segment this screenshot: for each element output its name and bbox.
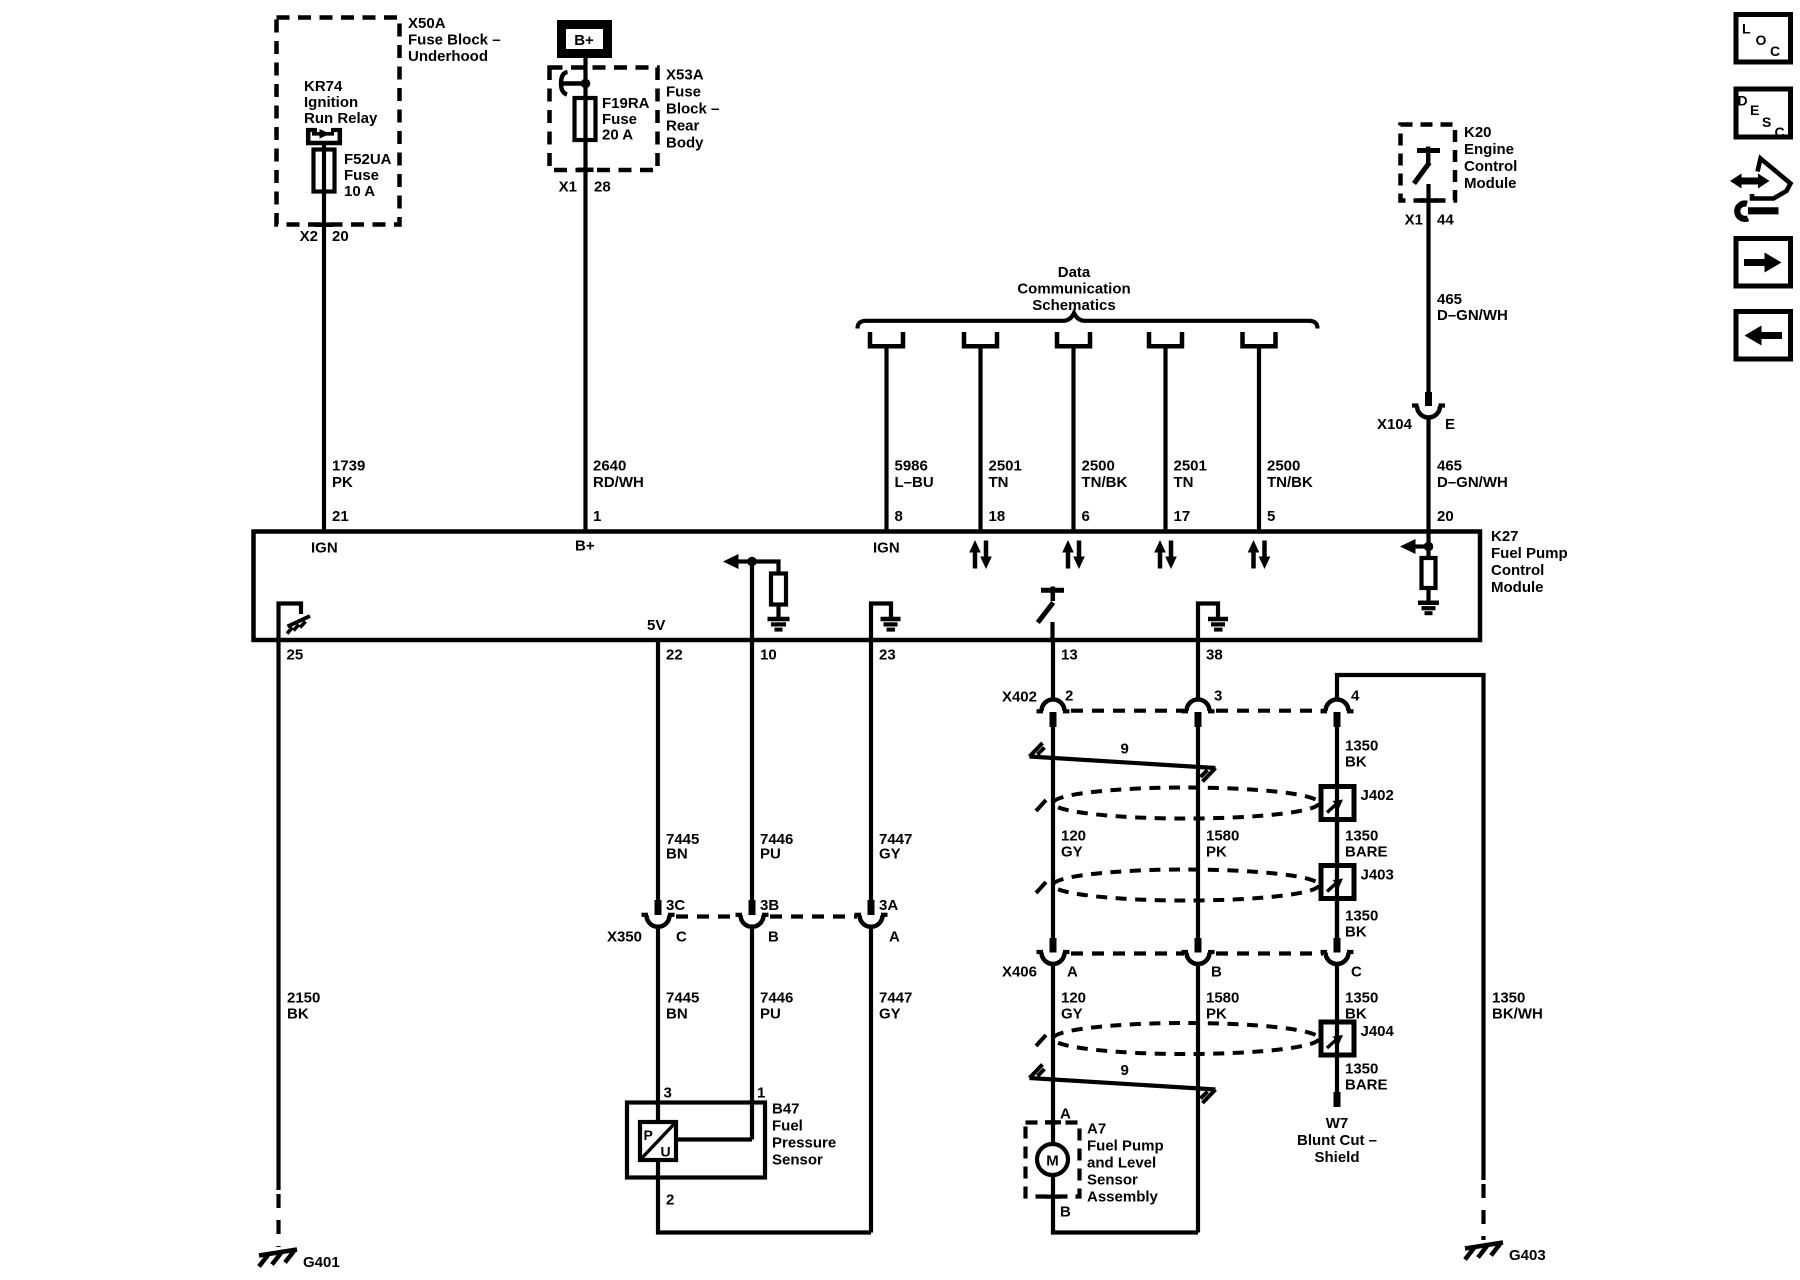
svg-text:X350: X350 <box>607 929 642 946</box>
svg-text:L: L <box>1742 21 1751 37</box>
svg-text:K20: K20 <box>1464 124 1492 141</box>
svg-text:22: 22 <box>666 647 683 664</box>
label K20 Engine Control Module <box>1464 124 1517 192</box>
wire 2501 TN (pin 18) <box>978 349 982 532</box>
shield drain loop 3 <box>1036 1023 1319 1054</box>
svg-text:D–GN/WH: D–GN/WH <box>1437 474 1508 491</box>
label relay KR74 <box>304 78 378 127</box>
wire 120 GY top (pin 13 to X402 2) <box>1051 642 1055 699</box>
svg-text:1: 1 <box>757 1085 765 1102</box>
wire 2150 BK (pin 25 to G401) <box>276 642 280 1190</box>
svg-text:D–GN/WH: D–GN/WH <box>1437 307 1508 324</box>
svg-text:X1: X1 <box>1405 212 1423 229</box>
svg-text:7445: 7445 <box>666 990 699 1007</box>
svg-text:120: 120 <box>1061 990 1086 1007</box>
wire pump return (B to 1580 PK) <box>1053 1175 1198 1233</box>
svg-text:M: M <box>1046 1153 1059 1170</box>
svg-text:and Level: and Level <box>1087 1155 1156 1172</box>
wire 7445 BN lower (X350 C to sensor pin 3) <box>656 929 660 1123</box>
svg-text:TN/BK: TN/BK <box>1267 474 1313 491</box>
label wire 2150 BK <box>287 990 320 1023</box>
connector X402 terminal 2 <box>1037 700 1070 728</box>
label connector X1 pin 28 <box>559 179 611 196</box>
svg-text:28: 28 <box>594 179 611 196</box>
ground G403 <box>1465 1243 1546 1265</box>
svg-text:BARE: BARE <box>1345 844 1388 861</box>
svg-text:Sensor: Sensor <box>1087 1172 1138 1189</box>
svg-text:Engine: Engine <box>1464 141 1514 158</box>
pump A7 dashed box <box>1026 1123 1080 1197</box>
svg-text:Data: Data <box>1058 264 1091 281</box>
svg-text:B: B <box>1211 964 1222 981</box>
connector X104 terminal E <box>1377 392 1455 433</box>
svg-text:J403: J403 <box>1361 867 1394 884</box>
svg-text:4: 4 <box>1351 688 1360 705</box>
internal chassis ground pin 25 <box>279 604 311 641</box>
svg-text:1350: 1350 <box>1345 828 1378 845</box>
label wire 465 D-GN/WH upper <box>1437 291 1508 324</box>
internal resistor to ground pin 20 <box>1400 533 1439 613</box>
K20 internal switch <box>1414 147 1440 184</box>
label wire 2640 RD/WH <box>593 458 644 492</box>
module K27 Fuel Pump Control Module box <box>254 532 1481 641</box>
svg-text:BN: BN <box>666 846 688 863</box>
pump A7 boundary crossing ticks <box>1045 1122 1061 1196</box>
svg-text:B47: B47 <box>772 1101 800 1118</box>
svg-text:B: B <box>1060 1204 1071 1221</box>
svg-text:D: D <box>1738 93 1748 109</box>
svg-text:9: 9 <box>1121 741 1129 758</box>
svg-text:Fuel Pump: Fuel Pump <box>1087 1138 1164 1155</box>
svg-text:BK: BK <box>287 1006 309 1023</box>
wire 2501 TN (pin 17) <box>1163 349 1167 532</box>
svg-text:PK: PK <box>1206 1006 1227 1023</box>
svg-text:1739: 1739 <box>332 458 365 475</box>
svg-text:1350: 1350 <box>1345 1061 1378 1078</box>
svg-text:1350: 1350 <box>1345 738 1378 755</box>
connector X350 terminal B <box>736 900 769 927</box>
svg-text:1580: 1580 <box>1206 990 1239 1007</box>
svg-text:2: 2 <box>1065 688 1073 705</box>
svg-text:Sensor: Sensor <box>772 1152 823 1169</box>
label wire 7447 GY upper <box>879 831 912 863</box>
internal ground pin 23 <box>871 604 901 641</box>
circuit breaker hook symbol in X53A <box>561 72 590 95</box>
svg-text:RD/WH: RD/WH <box>593 474 644 491</box>
button DESC <box>1736 89 1791 140</box>
wire 120 GY lower (X406 A to pump) <box>1051 965 1055 1123</box>
svg-text:S: S <box>1762 114 1771 130</box>
wire 465 D-GN/WH upper (ECM to X104) <box>1426 184 1430 393</box>
label X50A Fuse Block - Underhood <box>408 15 501 65</box>
connector X402 terminal 3 <box>1182 700 1215 728</box>
svg-text:Communication: Communication <box>1017 281 1130 298</box>
svg-text:465: 465 <box>1437 458 1462 475</box>
svg-text:Module: Module <box>1491 579 1544 596</box>
svg-text:B: B <box>768 929 779 946</box>
internal ground pin 38 <box>1198 604 1228 641</box>
label connector X1 pin 44 <box>1405 212 1455 229</box>
svg-text:Module: Module <box>1464 175 1517 192</box>
svg-text:Pressure: Pressure <box>772 1135 836 1152</box>
svg-text:GY: GY <box>879 846 901 863</box>
label F19RA Fuse 20 A <box>602 95 650 144</box>
svg-text:Control: Control <box>1491 562 1544 579</box>
wire 465 D-GN/WH lower (X104 to module pin 20) <box>1426 419 1430 532</box>
splice J402 <box>1321 787 1354 820</box>
label wire 1350 BARE lower <box>1345 1061 1388 1094</box>
label wire 2501 TN (pin 18) <box>989 458 1022 492</box>
svg-text:20: 20 <box>332 228 349 245</box>
svg-text:PK: PK <box>332 474 353 491</box>
wire 7446 PU upper (pin 10 to X350 B) <box>750 642 754 901</box>
wire shield jumper to G403 (X402 4 up and over) <box>1337 675 1484 1240</box>
svg-text:5: 5 <box>1267 508 1275 525</box>
svg-text:20 A: 20 A <box>602 127 633 144</box>
label wire 1350 BK/WH <box>1492 990 1543 1023</box>
svg-text:1350: 1350 <box>1345 990 1378 1007</box>
ground G401 <box>259 1250 340 1272</box>
shield drain loop 2 <box>1036 870 1319 901</box>
label W7 Blunt Cut Shield <box>1297 1115 1377 1166</box>
wire 2640 RD/WH (B+ to module pin 1) <box>583 58 587 531</box>
svg-text:K27: K27 <box>1491 528 1519 545</box>
wire 1580 PK lower (X406 B to pump return) <box>1196 965 1200 1233</box>
svg-text:2500: 2500 <box>1267 458 1300 475</box>
data connector 2 <box>964 332 997 346</box>
svg-text:8: 8 <box>895 508 903 525</box>
svg-text:U: U <box>661 1144 671 1160</box>
svg-text:GY: GY <box>1061 844 1083 861</box>
svg-text:2500: 2500 <box>1082 458 1115 475</box>
label wire 2500 TN/BK (pin 5) <box>1267 458 1313 492</box>
wire 1350 BK (J403 to X406 C) <box>1335 899 1339 939</box>
fuse F19RA <box>575 98 596 140</box>
svg-text:Fuse Block –: Fuse Block – <box>408 32 501 49</box>
crossing tick at K20 box edge <box>1420 198 1437 203</box>
svg-text:X53A: X53A <box>666 67 704 84</box>
sensor B47 box <box>627 1103 765 1178</box>
label X53A Fuse Block - Rear Body <box>666 67 719 152</box>
svg-text:Underhood: Underhood <box>408 48 488 65</box>
svg-text:KR74: KR74 <box>304 78 343 95</box>
svg-text:1: 1 <box>593 508 601 525</box>
label F52UA Fuse 10 A <box>344 151 392 200</box>
svg-text:1350: 1350 <box>1345 908 1378 925</box>
label wire 465 D-GN/WH lower <box>1437 458 1508 492</box>
wire 1350 BARE (J402 to J403) <box>1335 820 1339 867</box>
svg-text:18: 18 <box>989 508 1006 525</box>
svg-text:5986: 5986 <box>895 458 928 475</box>
svg-text:1580: 1580 <box>1206 828 1239 845</box>
svg-text:A: A <box>1067 964 1078 981</box>
svg-text:3A: 3A <box>879 897 898 914</box>
svg-text:A: A <box>889 929 900 946</box>
connector X406 terminal B <box>1182 938 1215 964</box>
svg-text:7446: 7446 <box>760 990 793 1007</box>
svg-text:X50A: X50A <box>408 15 446 32</box>
svg-text:BN: BN <box>666 1006 688 1023</box>
wire 120 GY (X402 to X406) <box>1051 727 1055 938</box>
wire 5986 L-BU <box>884 349 888 532</box>
svg-text:10 A: 10 A <box>344 183 375 200</box>
wire 1580 PK (X402 to X406) <box>1196 727 1200 938</box>
wire 1350 BK lower (X406 C to splice J404) <box>1335 965 1339 1093</box>
connector X350 terminal C <box>642 900 675 927</box>
twisted pair symbol upper <box>1030 743 1216 782</box>
svg-text:25: 25 <box>287 647 304 664</box>
svg-text:TN/BK: TN/BK <box>1082 474 1128 491</box>
svg-text:Assembly: Assembly <box>1087 1189 1159 1206</box>
svg-text:GY: GY <box>879 1006 901 1023</box>
svg-text:Control: Control <box>1464 158 1517 175</box>
svg-text:B+: B+ <box>575 538 595 555</box>
splice J403 <box>1321 866 1354 899</box>
label wire 7446 PU lower <box>760 990 793 1023</box>
svg-text:X2: X2 <box>300 228 318 245</box>
svg-text:E: E <box>1750 102 1759 118</box>
svg-text:X104: X104 <box>1377 416 1413 433</box>
svg-text:G403: G403 <box>1509 1247 1546 1264</box>
svg-text:10: 10 <box>760 647 777 664</box>
svg-text:A7: A7 <box>1087 1121 1106 1138</box>
svg-text:120: 120 <box>1061 828 1086 845</box>
svg-text:X406: X406 <box>1002 964 1037 981</box>
bidirectional arrows pin 18 <box>969 540 992 569</box>
data connector 3 <box>1057 332 1090 346</box>
label B47 Fuel Pressure Sensor <box>772 1101 836 1169</box>
svg-text:Block –: Block – <box>666 101 719 118</box>
svg-text:BK/WH: BK/WH <box>1492 1006 1543 1023</box>
wire sensor low reference (pin 2 to 7447 GY) <box>658 1160 871 1233</box>
connector X350 terminal A <box>855 900 888 927</box>
svg-text:Shield: Shield <box>1314 1149 1359 1166</box>
wire 1350 BK (X402 to splice J402) <box>1335 727 1339 938</box>
wire 7445 BN upper (pin 22 to X350 C) <box>656 642 660 901</box>
connector X1 pin 28 crossing tick <box>578 168 594 173</box>
label K27 Fuel Pump Control Module <box>1491 528 1568 596</box>
data connector 4 <box>1149 332 1182 346</box>
bidirectional arrows pin 5 <box>1248 540 1271 569</box>
svg-text:TN: TN <box>989 474 1009 491</box>
svg-text:TN: TN <box>1174 474 1194 491</box>
svg-text:3: 3 <box>1214 688 1222 705</box>
svg-text:A: A <box>1060 1106 1071 1123</box>
twisted pair symbol lower <box>1030 1065 1216 1104</box>
svg-text:PK: PK <box>1206 844 1227 861</box>
svg-text:X1: X1 <box>559 179 577 196</box>
label wire 7446 PU upper <box>760 831 793 863</box>
fuel pump motor M <box>1037 1124 1068 1175</box>
svg-text:C: C <box>1770 43 1780 59</box>
svg-text:9: 9 <box>1121 1062 1129 1079</box>
svg-text:Fuse: Fuse <box>602 111 637 128</box>
pressure sensor element P/U <box>640 1122 676 1160</box>
battery feed B+ box <box>562 25 608 54</box>
splice J404 <box>1321 1022 1354 1055</box>
label wire 1739 PK <box>332 458 365 492</box>
svg-text:Fuel Pump: Fuel Pump <box>1491 545 1568 562</box>
fuse block X53A (dashed box) <box>550 68 658 171</box>
fuse F52UA <box>314 150 335 192</box>
label A7 Fuel Pump and Level Sensor Assembly <box>1087 1121 1164 1206</box>
label wire 7447 GY lower <box>879 990 912 1023</box>
svg-text:3: 3 <box>664 1085 672 1102</box>
svg-text:P: P <box>644 1127 653 1143</box>
svg-text:2: 2 <box>666 1192 674 1209</box>
svg-text:Rear: Rear <box>666 118 700 135</box>
fuse block X50A (dashed box) <box>277 18 400 225</box>
svg-text:2150: 2150 <box>287 990 320 1007</box>
svg-text:38: 38 <box>1206 647 1223 664</box>
svg-text:Body: Body <box>666 135 704 152</box>
svg-text:23: 23 <box>879 647 896 664</box>
svg-text:3B: 3B <box>760 897 779 914</box>
label wire 120 GY lower <box>1061 990 1086 1023</box>
svg-text:F52UA: F52UA <box>344 151 392 168</box>
svg-text:B+: B+ <box>574 32 594 49</box>
svg-text:W7: W7 <box>1326 1115 1349 1132</box>
button next arrow <box>1736 239 1791 287</box>
module K20 ECM (dashed box) <box>1401 125 1456 201</box>
wire 7447 GY upper (pin 23 to X350 A) <box>869 642 873 901</box>
wire 1580 PK top (pin 38 to X402 3) <box>1196 642 1200 699</box>
svg-text:2640: 2640 <box>593 458 626 475</box>
shield drain loop 1 <box>1036 788 1319 819</box>
connector X402 dashed gang line <box>1071 709 1323 713</box>
svg-text:5V: 5V <box>647 617 665 634</box>
svg-text:44: 44 <box>1437 212 1454 229</box>
button back arrow <box>1736 312 1791 360</box>
svg-text:J402: J402 <box>1361 787 1394 804</box>
svg-text:G401: G401 <box>303 1254 340 1271</box>
relay KR74 contact symbol <box>306 128 342 143</box>
wire 2500 TN/BK (pin 5) <box>1257 349 1261 532</box>
svg-text:6: 6 <box>1082 508 1090 525</box>
label wire 2500 TN/BK (pin 6) <box>1082 458 1128 492</box>
svg-text:21: 21 <box>332 508 349 525</box>
svg-text:C: C <box>676 929 687 946</box>
internal switch pin 13 <box>1038 587 1064 641</box>
bidirectional arrows pin 17 <box>1154 540 1177 569</box>
svg-text:465: 465 <box>1437 291 1462 308</box>
svg-text:X402: X402 <box>1002 689 1037 706</box>
svg-text:20: 20 <box>1437 508 1454 525</box>
data connector 1 <box>870 332 903 346</box>
svg-text:7447: 7447 <box>879 990 912 1007</box>
svg-text:IGN: IGN <box>311 540 338 557</box>
label wire 1350 BARE <box>1345 828 1388 861</box>
svg-text:2501: 2501 <box>1174 458 1207 475</box>
connector X2 pin 20 crossing tick <box>315 223 333 228</box>
data connector 5 <box>1243 332 1276 346</box>
icon vehicle data test (car outline with arrows and wrench) <box>1730 159 1791 219</box>
label wire 1350 BK (above J402) <box>1345 738 1378 771</box>
label wire 2501 TN (pin 17) <box>1174 458 1207 492</box>
svg-text:Blunt Cut –: Blunt Cut – <box>1297 1132 1377 1149</box>
bidirectional arrows pin 6 <box>1062 540 1085 569</box>
wire 7446 PU lower (X350 B to sensor pin 1) <box>750 929 754 1140</box>
svg-text:C: C <box>1351 964 1362 981</box>
wire 1739 PK (relay to module pin 21) <box>322 145 326 531</box>
svg-text:BK: BK <box>1345 924 1367 941</box>
svg-text:BARE: BARE <box>1345 1077 1388 1094</box>
connector X406 terminal A <box>1037 938 1070 964</box>
label wire 7445 BN upper <box>666 831 699 863</box>
wire 7447 GY lower (X350 A to sensor low reference) <box>869 929 873 1233</box>
svg-text:17: 17 <box>1174 508 1191 525</box>
label wire 1580 PK lower <box>1206 990 1239 1023</box>
label wire 1350 BK lower <box>1345 990 1378 1023</box>
svg-text:Fuel: Fuel <box>772 1118 803 1135</box>
label wire 5986 L-BU <box>895 458 934 492</box>
internal 5V pull-up resistor pin 10 <box>723 554 790 640</box>
svg-text:PU: PU <box>760 1006 781 1023</box>
svg-text:PU: PU <box>760 846 781 863</box>
connector X402 terminal 4 <box>1321 700 1354 728</box>
svg-text:IGN: IGN <box>873 540 900 557</box>
button LOC <box>1736 15 1791 63</box>
connector X350 dashed gang line <box>676 914 857 918</box>
wire 2500 TN/BK (pin 6) <box>1071 349 1075 532</box>
svg-text:BK: BK <box>1345 754 1367 771</box>
svg-text:3C: 3C <box>666 897 685 914</box>
blunt cut W7 shield <box>1334 1092 1341 1107</box>
brace over data connectors <box>858 313 1318 329</box>
svg-text:2501: 2501 <box>989 458 1022 475</box>
svg-text:GY: GY <box>1061 1006 1083 1023</box>
label wire 1580 PK <box>1206 828 1239 861</box>
wire sensor signal link (pin 1 to element) <box>676 1137 752 1141</box>
svg-text:1350: 1350 <box>1492 990 1525 1007</box>
connector X406 terminal C <box>1321 938 1354 964</box>
svg-text:Fuse: Fuse <box>344 167 379 184</box>
label wire 1350 BK (below J403) <box>1345 908 1378 941</box>
label connector X2 pin 20 <box>300 228 349 245</box>
connector X406 dashed gang line <box>1071 951 1323 955</box>
svg-text:13: 13 <box>1061 647 1078 664</box>
svg-text:L–BU: L–BU <box>895 474 934 491</box>
svg-text:C: C <box>1775 124 1785 140</box>
svg-text:Ignition: Ignition <box>304 94 358 111</box>
svg-text:J404: J404 <box>1361 1023 1395 1040</box>
svg-text:F19RA: F19RA <box>602 95 650 112</box>
svg-text:Fuse: Fuse <box>666 84 701 101</box>
label wire 7445 BN lower <box>666 990 699 1023</box>
svg-text:E: E <box>1445 416 1455 433</box>
label Data Communication Schematics <box>1017 264 1130 314</box>
svg-text:Run Relay: Run Relay <box>304 110 378 127</box>
svg-text:O: O <box>1756 32 1767 48</box>
label wire 120 GY <box>1061 828 1086 861</box>
